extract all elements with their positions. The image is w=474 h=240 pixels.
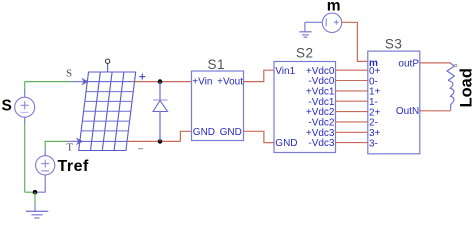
label T pin gray — [67, 142, 74, 153]
pin GND S2 — [275, 138, 297, 149]
diode D — [153, 82, 168, 142]
wire bus3 — [336, 100, 368, 102]
svg-text:S2: S2 — [296, 46, 314, 61]
wire S1 GND to S2 GND red — [244, 131, 275, 142]
PV panel module — [79, 72, 136, 151]
wire bus6 — [336, 131, 368, 133]
ground top middle — [299, 22, 311, 37]
svg-text:-Vdc2: -Vdc2 — [308, 118, 335, 129]
resistor Load zigzag — [447, 63, 454, 81]
svg-text:S: S — [66, 67, 72, 79]
svg-text:Vin1: Vin1 — [275, 66, 295, 77]
pin -Vdc1 — [308, 97, 335, 108]
arrow T input — [77, 139, 82, 145]
svg-text:GND: GND — [275, 138, 297, 149]
wire bus2 — [336, 90, 368, 92]
panel plus label — [139, 74, 145, 80]
svg-text:T: T — [67, 142, 74, 153]
pin +Vdc1 — [306, 87, 335, 98]
pin GND left S1 — [193, 127, 215, 138]
label Load rotated — [458, 68, 474, 107]
wire OutN to load red — [420, 110, 451, 112]
pin +Vdc0 — [306, 66, 335, 77]
pin m S3 — [369, 58, 378, 69]
wire green to junction — [25, 191, 35, 193]
wire panel plus to Vin red — [135, 81, 192, 83]
wire S net green horizontal — [25, 81, 84, 83]
junction dot diode top — [158, 79, 163, 84]
pin outP — [398, 58, 419, 69]
pin -Vdc3 — [308, 138, 335, 149]
svg-text:Tref: Tref — [58, 158, 90, 175]
svg-text:+Vin: +Vin — [192, 76, 212, 87]
ground bottom left — [26, 211, 49, 218]
svg-text:0-: 0- — [369, 76, 378, 87]
block S2 — [274, 62, 336, 153]
svg-text:m: m — [327, 0, 341, 15]
wire bus0 S2 to S3 — [336, 69, 368, 71]
wire Tref top stub violet — [44, 148, 46, 156]
resistor tiny node mark — [455, 64, 457, 66]
wire Tref bottom violet — [35, 175, 45, 192]
wire junction to ground — [34, 192, 36, 211]
svg-text:2-: 2- — [369, 118, 378, 129]
wire Tref net green — [45, 141, 78, 148]
pin Vin1 — [275, 66, 295, 77]
block S3 — [368, 51, 420, 154]
panel top node circle — [105, 59, 109, 72]
arrow S input — [82, 79, 87, 85]
panel minus label — [138, 148, 143, 150]
wire S source bottom stub violet — [24, 117, 26, 124]
pin -Vdc0 — [308, 76, 335, 87]
svg-text:S1: S1 — [208, 57, 226, 72]
svg-text:GND: GND — [220, 127, 242, 138]
svg-text:1-: 1- — [369, 97, 378, 108]
wire bus4 — [336, 111, 368, 113]
wire bus7 — [336, 142, 368, 144]
label S pin gray — [66, 67, 72, 79]
svg-text:-Vdc3: -Vdc3 — [308, 138, 335, 149]
wire GND jog to S1 red — [180, 131, 191, 141]
inductor Load coils — [448, 81, 454, 111]
wire panel bottom red — [127, 140, 180, 142]
wire bus5 — [336, 121, 368, 123]
pin 0+ — [369, 66, 381, 77]
wire outP to load red — [420, 62, 451, 64]
pin 0- — [369, 76, 378, 87]
pin 3+ — [369, 128, 381, 139]
pin 3- — [369, 138, 378, 149]
label S1 title — [208, 57, 226, 72]
pin +Vdc3 — [306, 128, 335, 139]
wire S1 Vout to S2 Vin1 red — [244, 70, 275, 81]
svg-text:Load: Load — [458, 68, 474, 107]
label S — [2, 98, 12, 115]
pin 2+ — [369, 107, 381, 118]
label S3 title — [385, 37, 403, 52]
label Tref — [58, 158, 90, 175]
svg-text:-Vdc0: -Vdc0 — [308, 76, 335, 87]
label m — [327, 0, 341, 15]
pin 2- — [369, 118, 378, 129]
block S1 — [192, 71, 244, 141]
junction dot bottom left — [33, 190, 38, 195]
svg-text:-Vdc1: -Vdc1 — [308, 97, 335, 108]
wire S source top stub violet — [24, 90, 26, 97]
pin +Vdc2 — [306, 107, 335, 118]
voltage source S — [15, 97, 35, 117]
svg-text:S3: S3 — [385, 37, 403, 52]
wire S net green vertical — [24, 82, 26, 91]
voltage source Tref — [36, 156, 55, 175]
voltage source m — [322, 13, 341, 32]
svg-text:OutN: OutN — [396, 106, 419, 117]
pin OutN — [396, 106, 419, 117]
junction dot diode bottom — [158, 139, 163, 144]
svg-text:outP: outP — [398, 58, 419, 69]
wire bus1 — [336, 80, 368, 82]
svg-text:+Vout: +Vout — [217, 76, 243, 87]
wire m source left violet — [305, 21, 323, 23]
pin +Vin — [192, 76, 212, 87]
svg-text:S: S — [2, 98, 12, 115]
pin GND right S1 — [220, 127, 242, 138]
pin 1+ — [369, 87, 381, 98]
wire S to ground green vertical — [24, 123, 26, 192]
label S2 title — [296, 46, 314, 61]
svg-text:3-: 3- — [369, 138, 378, 149]
svg-text:GND: GND — [193, 127, 215, 138]
pin -Vdc2 — [308, 118, 335, 129]
wire m source to S3 red — [342, 22, 368, 61]
pin +Vout — [217, 76, 243, 87]
pin 1- — [369, 97, 378, 108]
